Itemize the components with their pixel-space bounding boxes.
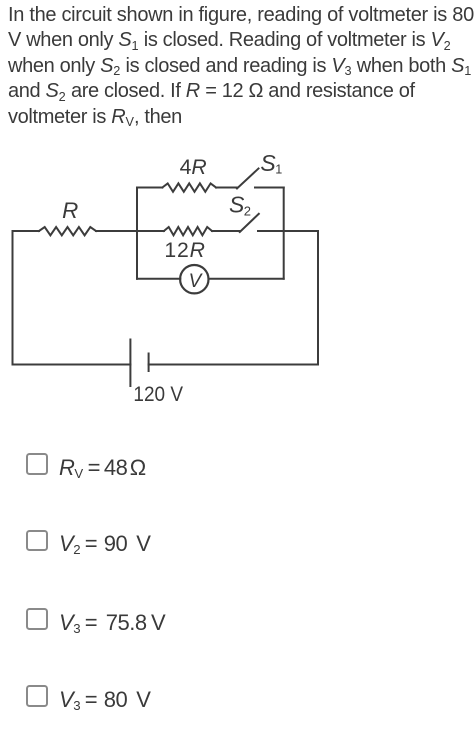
- option 4 text V3 = 80 V: [59, 689, 150, 711]
- resistor 4R: [162, 183, 216, 191]
- checkbox option 4: [26, 685, 48, 707]
- wire: bottom right segment: [149, 364, 318, 366]
- svg-text:V: V: [189, 271, 204, 292]
- switch S1 blade: [237, 169, 259, 189]
- resistor 12R: [164, 227, 212, 235]
- option 2 text V2 = 90 V: [59, 533, 150, 555]
- wire: 12R to switch S2: [212, 230, 240, 232]
- wire: inner right vertical: [283, 188, 285, 279]
- option 3 text V3 = 75.8 V: [59, 612, 165, 634]
- wire: voltmeter branch left: [137, 278, 180, 280]
- svg-text:4R: 4R: [180, 156, 207, 179]
- wire: top branch left: [137, 187, 162, 189]
- checkbox option 2: [26, 530, 48, 552]
- question text: [8, 3, 474, 130]
- svg-text:S: S: [260, 150, 276, 176]
- svg-text:S: S: [229, 192, 245, 218]
- svg-text:120 V: 120 V: [133, 381, 183, 406]
- wire: S1 to inner right corner: [255, 187, 284, 189]
- wire: R to junction: [96, 230, 164, 232]
- wire: bottom left segment: [13, 364, 131, 366]
- checkbox option 3: [26, 608, 48, 630]
- circuit schematic: [0, 148, 340, 418]
- wire: S2 to outer right: [258, 230, 318, 232]
- battery B1 short plate: [148, 354, 150, 372]
- svg-text:2: 2: [244, 204, 251, 219]
- voltmeter V: [180, 265, 208, 293]
- checkbox option 1: [26, 453, 48, 475]
- resistor R: [39, 227, 96, 235]
- wire: main left horizontal: [13, 230, 40, 232]
- svg-text:12R: 12R: [164, 239, 205, 262]
- battery B1 long plate: [129, 340, 131, 387]
- wire: inner left vertical: [136, 188, 138, 279]
- wire: voltmeter branch right: [209, 278, 284, 280]
- wire: outer left vertical: [12, 231, 14, 365]
- wire: 4R to switch S1: [216, 187, 237, 189]
- wire: outer right vertical: [317, 231, 319, 365]
- svg-text:1: 1: [275, 162, 282, 176]
- option 1 text RV = 48 ohm: [59, 457, 146, 479]
- switch S2 blade: [240, 214, 259, 232]
- svg-text:R: R: [62, 198, 78, 223]
